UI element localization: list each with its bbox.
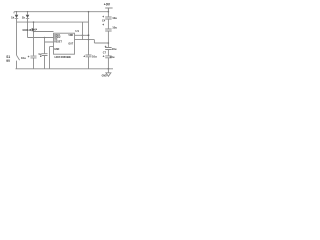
- capacitor C2: [38, 42, 47, 69]
- svg-text:RESET: RESET: [54, 41, 62, 43]
- diode D1: [11, 15, 18, 20]
- capacitor C4: [102, 15, 117, 22]
- wire rail tail: [13, 12, 15, 14]
- svg-text:10u: 10u: [92, 54, 97, 58]
- wire supply drop from top rail: [88, 12, 90, 40]
- svg-text:10u: 10u: [112, 47, 117, 51]
- svg-text:4: 4: [36, 28, 38, 31]
- node junction: [33, 21, 35, 23]
- node junction: [44, 37, 46, 39]
- svg-text:C4: C4: [102, 20, 106, 23]
- node VDD-B junction: [88, 34, 90, 36]
- diode D2 column: [27, 12, 29, 38]
- svg-text:+9V: +9V: [104, 2, 111, 6]
- wire bottom ground rail: [16, 68, 114, 70]
- capacitor C5: [102, 23, 117, 31]
- wire IC pin1 to C1 column: [34, 22, 54, 56]
- svg-text:1N4148: 1N4148: [22, 28, 32, 32]
- wire step branch to IC: [45, 38, 54, 43]
- svg-text:GND: GND: [102, 75, 107, 77]
- node top rail right junction: [108, 11, 110, 13]
- ground: [106, 69, 111, 77]
- node top rail junction: [88, 11, 90, 13]
- op-amp U1 IC box: [54, 33, 75, 54]
- node OUT junction: [88, 39, 90, 41]
- svg-text:10u: 10u: [21, 56, 26, 60]
- capacitor C3 output branch: [83, 40, 97, 69]
- svg-text:HCF4060BE: HCF4060BE: [55, 55, 71, 59]
- capacitor C6: [105, 45, 117, 51]
- svg-text:VDD: VDD: [68, 35, 73, 37]
- power +9V: [105, 8, 112, 12]
- wire right rail segment: [107, 8, 109, 69]
- wire top rail VCC: [14, 11, 108, 13]
- capacitor C7: [103, 51, 115, 58]
- svg-text:+: +: [28, 55, 30, 59]
- wire to IC pin row2: [28, 37, 54, 39]
- diode D3: [22, 28, 38, 32]
- svg-text:U1: U1: [75, 29, 79, 33]
- wire IC VDD stub: [75, 34, 89, 36]
- wire output run: [75, 40, 109, 43]
- node rail1 junctions: [16, 11, 17, 12]
- svg-text:10u: 10u: [112, 16, 117, 20]
- svg-text:+: +: [103, 54, 105, 58]
- wire vertical rail2 to out: [82, 22, 84, 39]
- wire second rail: [17, 21, 89, 23]
- wire IC pin4 stub down: [50, 47, 54, 69]
- svg-text:+: +: [105, 45, 107, 49]
- switch S1: [17, 55, 20, 61]
- svg-text:GND: GND: [54, 49, 59, 51]
- node VDD junction: [82, 35, 84, 37]
- svg-text:1k: 1k: [11, 15, 15, 19]
- diode D2: [22, 15, 30, 20]
- svg-text:+: +: [102, 15, 104, 19]
- svg-text:10u: 10u: [112, 25, 117, 29]
- svg-text:10u: 10u: [110, 55, 115, 59]
- node mid rail junction: [108, 42, 110, 44]
- svg-text:+: +: [102, 23, 104, 27]
- svg-text:9V: 9V: [6, 59, 11, 63]
- svg-text:+: +: [40, 55, 42, 59]
- battery column / diode D1: [16, 12, 18, 69]
- capacitor C1: [21, 55, 37, 69]
- svg-text:+: +: [83, 55, 85, 59]
- svg-text:1k: 1k: [22, 15, 26, 19]
- node ground junction: [108, 68, 110, 70]
- svg-text:OUT: OUT: [68, 44, 73, 46]
